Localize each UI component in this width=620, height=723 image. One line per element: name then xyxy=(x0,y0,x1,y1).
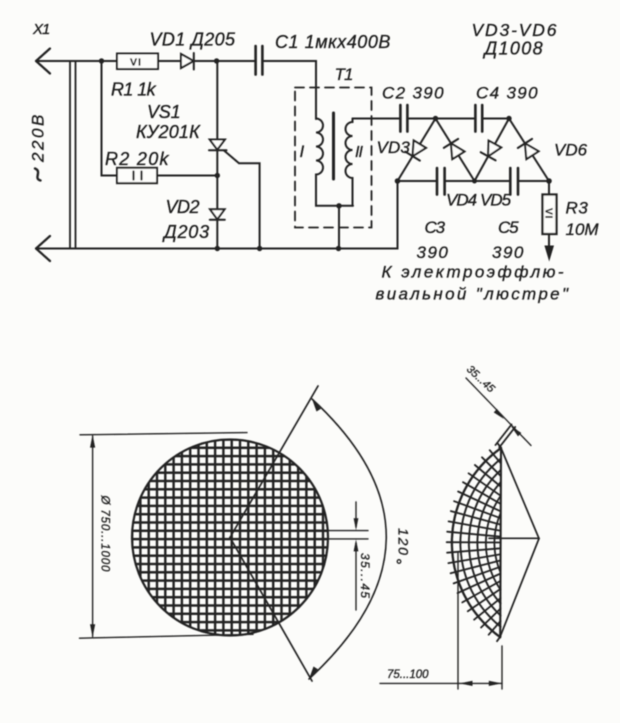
winding I xyxy=(316,119,353,206)
svg-text:VI: VI xyxy=(543,208,554,219)
cap edge section double line xyxy=(496,425,516,448)
wire diag P2-BR xyxy=(509,119,549,182)
wire peak1 to C4 xyxy=(436,118,476,120)
svg-text:390: 390 xyxy=(417,243,450,262)
wire VD1 to C1 xyxy=(194,60,255,62)
wire R1R2 branch xyxy=(102,61,118,176)
resistor R3 xyxy=(543,181,557,234)
svg-text:VD5: VD5 xyxy=(480,191,512,210)
svg-text:220В: 220В xyxy=(29,112,48,163)
label VD3-VD6 Д1008 xyxy=(472,20,559,59)
side-view cap outer arc xyxy=(452,448,501,637)
wire bottom bus xyxy=(36,181,398,249)
wire C4 to peak2 xyxy=(482,118,509,120)
label output net xyxy=(376,263,571,304)
svg-text:КУ201К: КУ201К xyxy=(136,122,201,142)
connector X1 xyxy=(32,21,50,261)
diode VD4 xyxy=(444,139,465,159)
node junction gate return xyxy=(257,246,262,251)
capacitor C4 xyxy=(475,105,482,132)
transformer T1 box xyxy=(295,88,372,228)
node junction T1/bottom bus xyxy=(336,246,341,251)
svg-text:VD3-VD6: VD3-VD6 xyxy=(472,20,559,40)
svg-text:R3: R3 xyxy=(566,199,589,218)
label VD2 Д203 xyxy=(162,197,210,242)
capacitor C3 xyxy=(437,168,445,195)
node junction top-left xyxy=(99,58,104,63)
svg-text:Д203: Д203 xyxy=(162,222,210,242)
diode VD5 xyxy=(481,141,502,161)
dimension 75...100 xyxy=(380,553,502,689)
svg-text:Д1008: Д1008 xyxy=(483,39,544,59)
dimension arc 120deg xyxy=(309,399,412,679)
capacitor C2 xyxy=(400,105,407,132)
svg-text:120: 120 xyxy=(396,528,412,557)
svg-text:C2 390: C2 390 xyxy=(382,84,445,103)
svg-text:C5: C5 xyxy=(498,218,519,237)
net ~220V label xyxy=(29,112,48,180)
svg-text:VD1 Д205: VD1 Д205 xyxy=(150,30,237,50)
svg-text:VD3: VD3 xyxy=(377,138,411,157)
wire diag V-P2 xyxy=(475,119,510,182)
wire VS1 branch vertical xyxy=(216,61,218,249)
svg-text:T1: T1 xyxy=(335,65,353,84)
wire T1 to bottom bus xyxy=(338,206,340,249)
wire C3 to C5 through valley xyxy=(445,180,510,182)
svg-text:C3: C3 xyxy=(425,218,446,237)
wire T1 winding II to C2 xyxy=(353,118,401,120)
sector line upper xyxy=(230,386,318,538)
side-view mesh arc wires xyxy=(460,459,500,627)
diode VD2 xyxy=(210,209,225,219)
wire C5 to BR xyxy=(518,180,549,182)
svg-text:R1 1k: R1 1k xyxy=(111,80,157,100)
svg-text:X1: X1 xyxy=(32,21,50,38)
svg-text:R2 20k: R2 20k xyxy=(105,149,170,169)
svg-text:C1 1мкх400В: C1 1мкх400В xyxy=(275,32,391,52)
node junction R2/VS1 xyxy=(215,173,220,178)
wire BL to C3 xyxy=(398,180,437,182)
sector line lower xyxy=(230,538,312,682)
side-view mid line xyxy=(489,537,539,539)
svg-text:390: 390 xyxy=(492,243,525,262)
output arrow to chandelier xyxy=(544,234,554,262)
label C3 390 xyxy=(417,218,450,262)
wire R2 to gate node xyxy=(157,175,217,177)
core T1 xyxy=(332,113,335,179)
node junction VD2 cathode xyxy=(215,246,220,251)
node peak1 xyxy=(433,116,438,121)
svg-text:10М: 10М xyxy=(566,220,600,239)
svg-text:Ø 750...1000: Ø 750...1000 xyxy=(99,495,111,573)
diode VD3 xyxy=(405,141,426,161)
svg-text:VI: VI xyxy=(130,57,142,69)
wire mains pair xyxy=(70,61,76,249)
wire diag P1-V xyxy=(436,119,475,182)
resistor R2 xyxy=(117,168,157,183)
diode VD1 xyxy=(181,53,194,70)
cell reference lines xyxy=(230,531,368,539)
wire C1 to T1 xyxy=(263,61,316,119)
node BL xyxy=(395,178,401,184)
svg-text:35...45: 35...45 xyxy=(358,553,372,600)
node valley xyxy=(472,179,477,184)
side-view mesh radial wires xyxy=(447,444,501,641)
node BR xyxy=(546,178,552,184)
svg-text:C4 390: C4 390 xyxy=(476,84,539,103)
node peak2 xyxy=(506,116,511,121)
svg-text:VS1: VS1 xyxy=(147,102,180,122)
node junction VS1 anode xyxy=(214,58,219,63)
wire R1 to VD1 xyxy=(158,60,182,62)
side-view cap chord xyxy=(499,448,502,638)
winding II xyxy=(346,119,353,206)
diode VD6 xyxy=(518,139,539,159)
wire diag BL-P1 xyxy=(398,119,436,182)
svg-text:VD6: VD6 xyxy=(554,141,588,160)
svg-text:I: I xyxy=(300,142,305,161)
thyristor VS1 xyxy=(209,140,260,249)
disc mesh grid xyxy=(132,440,327,635)
svg-text:VD4: VD4 xyxy=(446,191,477,210)
capacitor C5 xyxy=(510,168,518,195)
capacitor C1 xyxy=(256,46,263,75)
svg-text:виальной "люстре": виальной "люстре" xyxy=(376,285,571,304)
svg-text:К электроэффлю-: К электроэффлю- xyxy=(382,263,567,282)
side-view chord upper xyxy=(501,448,539,539)
side-view chord lower xyxy=(500,539,539,638)
svg-text:75...100: 75...100 xyxy=(387,669,429,681)
resistor R1 xyxy=(117,54,158,70)
disc outline xyxy=(132,440,328,636)
dimension 35...45 vertical xyxy=(354,502,372,610)
dimension diameter 750...1000 xyxy=(80,433,254,639)
node junction T1 bottom xyxy=(336,203,341,208)
label R3 10M xyxy=(566,199,600,240)
dimension 35...45 thickness xyxy=(464,363,531,445)
svg-text:VD2: VD2 xyxy=(166,197,200,217)
wire top bus xyxy=(36,60,117,62)
label C5 390 xyxy=(492,218,525,262)
label VS1 КУ201К xyxy=(136,102,201,142)
wire C2 to peak1 xyxy=(408,118,436,120)
